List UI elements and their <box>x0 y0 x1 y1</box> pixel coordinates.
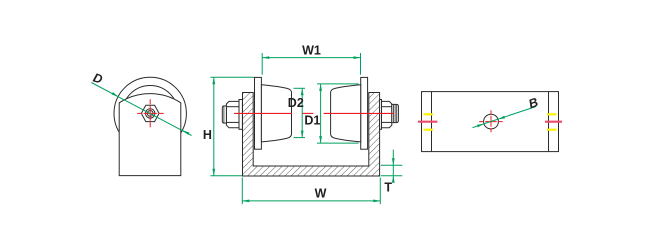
dimension W1 arrow left <box>262 56 269 59</box>
dimension W extension line left <box>241 178 243 205</box>
svg-text:W1: W1 <box>302 44 321 58</box>
dimension D2 arrow top <box>301 88 304 95</box>
dimension D2 arrow bottom <box>301 131 304 138</box>
dimension W line <box>242 200 380 202</box>
pink centerline mark left <box>418 121 437 123</box>
dimension W1 arrow right <box>354 56 361 59</box>
plan right wall inner edge <box>548 92 550 152</box>
plan outer rectangle <box>422 92 559 152</box>
dimension T arrow lower <box>392 176 395 183</box>
dimension D arrow upper <box>112 92 119 97</box>
dimension D2 extension line bottom <box>294 137 306 139</box>
dimension H line <box>213 77 215 176</box>
left roller tapered tread <box>261 85 291 142</box>
right axle threaded end <box>392 104 399 122</box>
right axle thread line 3 <box>396 105 398 123</box>
dimension D arrow lower <box>183 130 190 135</box>
roller tread inner circle <box>122 86 178 142</box>
plan centerline vertical <box>490 110 492 132</box>
dimension W arrow left <box>242 200 249 203</box>
axle hex nut (front) <box>141 105 159 121</box>
left nut facet line upper <box>226 106 239 108</box>
dimension D1 arrow top <box>319 84 322 91</box>
dimension D2 line <box>301 88 303 137</box>
washer circle outer <box>146 109 155 118</box>
left axle washer <box>239 100 242 130</box>
dimension B arrow right <box>498 116 505 120</box>
dimension D2 extension line top <box>294 87 306 89</box>
right roller tapered tread <box>331 85 361 142</box>
plan axle hole circle <box>484 114 499 129</box>
dimension D1 line <box>320 84 322 143</box>
plan left wall inner edge <box>431 92 433 152</box>
dimension W1 extension line left <box>261 53 263 75</box>
washer circle inner <box>147 111 153 117</box>
weld mark yellow left bottom <box>424 129 434 131</box>
svg-text:D: D <box>91 71 104 87</box>
dimension D1 extension line bottom <box>317 142 359 144</box>
svg-text:D1: D1 <box>304 113 320 127</box>
left roller flange plate <box>255 77 262 149</box>
axle centerline segment right <box>324 112 394 114</box>
dimension W1 line <box>262 57 360 59</box>
axle centerline segment left <box>234 112 292 114</box>
centerline cross horizontal <box>137 112 164 114</box>
dimension T line <box>392 150 394 183</box>
left axle end cap inner line <box>223 106 225 123</box>
dimension T extension line top <box>381 164 403 166</box>
dimension B arrow left <box>477 124 484 128</box>
weld mark yellow left top <box>424 113 434 115</box>
axle centerline segment middle <box>302 112 313 114</box>
svg-text:D2: D2 <box>288 96 304 110</box>
dimension H extension line bottom <box>211 175 243 177</box>
dimension B leader line <box>473 107 537 128</box>
left axle end cap <box>222 106 226 123</box>
left axle nut <box>226 101 239 127</box>
dimension W extension line right <box>379 178 381 205</box>
roller flange outer circle <box>114 77 186 149</box>
plan centerline horizontal <box>479 121 503 123</box>
dimension H arrow bottom <box>212 169 215 176</box>
dimension W1 extension line right <box>360 53 362 75</box>
right nut facet line upper <box>382 106 392 108</box>
dimension H arrow top <box>212 77 215 84</box>
svg-text:W: W <box>315 187 327 201</box>
right nut facet line lower <box>382 121 392 123</box>
right axle washer <box>380 100 382 130</box>
svg-text:T: T <box>384 181 392 195</box>
channel bracket hatched U section <box>243 93 380 177</box>
svg-text:H: H <box>203 128 212 142</box>
dimension D leader line <box>91 83 191 136</box>
centerline cross vertical <box>149 99 151 127</box>
bracket body (arched top) <box>119 94 181 176</box>
dimension W arrow right <box>373 200 380 203</box>
dimension T arrow upper <box>392 158 395 165</box>
right axle thread line 2 <box>394 104 396 122</box>
dimension H extension line top <box>211 76 255 78</box>
right axle thread line 1 <box>393 104 395 122</box>
left nut facet line lower <box>226 121 239 123</box>
weld mark yellow right bottom <box>547 129 557 131</box>
right axle nut <box>382 101 392 127</box>
weld mark yellow right top <box>547 113 557 115</box>
right roller flange plate <box>361 77 368 149</box>
dimension D1 arrow bottom <box>319 136 322 143</box>
dimension T extension line bottom <box>381 175 403 177</box>
dimension D1 extension line top <box>317 83 359 85</box>
pink centerline mark right <box>545 121 562 123</box>
